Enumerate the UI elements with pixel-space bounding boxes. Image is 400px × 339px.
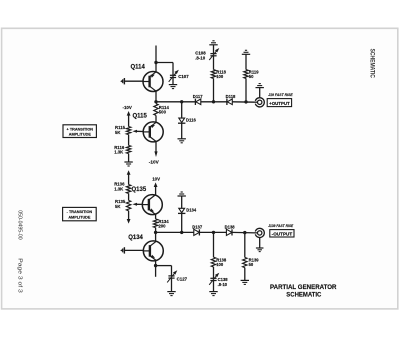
svg-text:Q115: Q115 xyxy=(133,114,148,120)
svg-text:100: 100 xyxy=(216,74,224,79)
svg-text:- TRANSITION: - TRANSITION xyxy=(67,210,93,214)
svg-text:PARTIAL GENERATOR: PARTIAL GENERATOR xyxy=(270,284,337,291)
svg-text:100: 100 xyxy=(216,262,224,267)
svg-text:.8-10: .8-10 xyxy=(218,282,228,287)
svg-text:+OUTPUT: +OUTPUT xyxy=(269,101,290,106)
svg-text:10V: 10V xyxy=(152,177,160,182)
svg-text:D117: D117 xyxy=(193,94,203,99)
svg-text:J139 FAST RISE: J139 FAST RISE xyxy=(268,223,293,228)
svg-text:50: 50 xyxy=(249,74,254,79)
svg-text:+ TRANSITION: + TRANSITION xyxy=(67,127,94,131)
svg-text:D138: D138 xyxy=(225,224,236,229)
svg-text:D118: D118 xyxy=(226,94,236,99)
svg-text:5K: 5K xyxy=(115,204,121,209)
svg-text:SCHEMATIC: SCHEMATIC xyxy=(286,291,322,298)
svg-text:Q134: Q134 xyxy=(128,235,143,241)
svg-text:5K: 5K xyxy=(115,130,121,135)
svg-text:C107: C107 xyxy=(178,74,189,79)
svg-text:Page 3 of 3: Page 3 of 3 xyxy=(16,258,22,293)
svg-text:50: 50 xyxy=(249,262,254,267)
svg-text:.8-10: .8-10 xyxy=(195,56,206,61)
svg-text:Q114: Q114 xyxy=(131,64,146,70)
svg-text:1.3K: 1.3K xyxy=(114,150,124,155)
svg-text:C127: C127 xyxy=(177,276,188,281)
svg-text:500: 500 xyxy=(159,110,167,115)
svg-text:050-0495-00: 050-0495-00 xyxy=(16,210,22,240)
svg-text:-10V: -10V xyxy=(149,159,160,164)
svg-text:-10V: -10V xyxy=(123,105,132,110)
svg-text:D137: D137 xyxy=(192,225,203,230)
svg-text:200: 200 xyxy=(158,223,166,228)
svg-text:1.3K: 1.3K xyxy=(114,186,124,191)
svg-text:J19 FAST RISE: J19 FAST RISE xyxy=(268,92,293,97)
svg-text:SCHEMATIC: SCHEMATIC xyxy=(368,49,375,79)
svg-text:D134: D134 xyxy=(186,208,197,213)
svg-text:D116: D116 xyxy=(186,118,196,123)
svg-text:AMPLITUDE: AMPLITUDE xyxy=(68,216,91,220)
svg-text:AMPLITUDE: AMPLITUDE xyxy=(69,132,92,136)
svg-text:-OUTPUT: -OUTPUT xyxy=(272,232,293,237)
svg-text:Q135: Q135 xyxy=(132,187,147,193)
